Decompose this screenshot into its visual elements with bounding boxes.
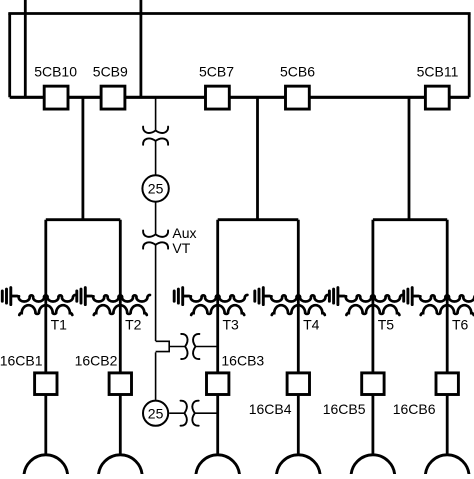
- wire: tie bar T1-T2: [46, 218, 121, 221]
- svg-text:16CB5: 16CB5: [323, 401, 366, 417]
- svg-text:16CB2: 16CB2: [75, 352, 118, 368]
- wire: T2 column upper: [119, 220, 122, 373]
- svg-text:T1: T1: [51, 316, 68, 332]
- svg-text:25: 25: [148, 405, 164, 421]
- wire: bus drop to T5/T6 tie bar: [408, 97, 411, 219]
- circuit breaker 5CB10: [44, 86, 68, 109]
- svg-text:T5: T5: [378, 316, 395, 332]
- circuit breaker 16CB5: [362, 373, 384, 395]
- circuit breaker 5CB7: [206, 86, 230, 109]
- wire: sync transformer 2 to T3 feeder: [195, 412, 218, 414]
- svg-text:5CB6: 5CB6: [280, 64, 315, 80]
- motor M5: [351, 455, 395, 479]
- wire: Aux VT down to tap jog: [155, 245, 157, 342]
- Aux VT transformer: [143, 231, 168, 249]
- wire: T5 column lower: [371, 395, 374, 455]
- node: offset tap jog on aux line: [156, 341, 170, 351]
- svg-text:16CB3: 16CB3: [221, 352, 264, 368]
- relay 25 (synchro-check) lower: [143, 401, 168, 426]
- wire: aux column from bus to VT: [155, 97, 157, 131]
- svg-text:25: 25: [148, 181, 164, 197]
- wire: T3 column lower: [216, 395, 219, 455]
- wire: top bypass line: [8, 12, 470, 15]
- wire: main bus: [10, 96, 470, 99]
- circuit breaker 16CB3: [207, 373, 229, 395]
- svg-text:5CB9: 5CB9: [93, 64, 128, 80]
- circuit breaker 5CB9: [101, 86, 125, 109]
- svg-text:T4: T4: [303, 316, 320, 332]
- svg-text:VT: VT: [172, 240, 190, 256]
- transformer T6: [413, 295, 474, 315]
- wire: sync transformer 1 to T3 feeder: [195, 346, 218, 348]
- ground symbol at T1 primary: [2, 288, 19, 305]
- wire: bus drop to T1/T2 tie bar: [82, 97, 85, 219]
- circuit breaker 5CB11: [425, 86, 449, 109]
- wire: right riser of bypass loop: [468, 14, 471, 98]
- transformer T5: [339, 295, 403, 315]
- wire: bus drop to T3/T4 tie bar: [256, 97, 259, 219]
- sync-check transformer 1: [181, 334, 199, 359]
- svg-text:5CB7: 5CB7: [199, 64, 234, 80]
- wire: T3 column upper: [216, 220, 219, 373]
- sync-check transformer 2: [181, 401, 199, 426]
- transformer T4: [265, 295, 329, 315]
- svg-text:T3: T3: [223, 316, 240, 332]
- wire: T1 column lower: [44, 395, 47, 455]
- svg-text:Aux: Aux: [172, 225, 196, 241]
- wire: T2 column lower: [119, 395, 122, 455]
- svg-text:5CB10: 5CB10: [34, 64, 77, 80]
- motor M3: [196, 455, 240, 479]
- circuit breaker 16CB1: [35, 373, 57, 395]
- wire: T4 column lower: [297, 395, 300, 455]
- wire: T1 column upper: [44, 220, 47, 373]
- ground symbol at T2 primary: [77, 288, 94, 305]
- svg-text:T6: T6: [452, 316, 469, 332]
- motor M2: [98, 455, 142, 479]
- wire: tie bar T3-T4: [218, 218, 299, 221]
- relay 25 (synchro-check) upper: [142, 175, 168, 201]
- wire: jog to sync transformer 1: [169, 346, 185, 348]
- circuit breaker 16CB4: [287, 373, 309, 395]
- circuit breaker 5CB6: [286, 86, 310, 109]
- transformer T3: [184, 295, 248, 315]
- ground symbol at T6 primary: [404, 288, 421, 305]
- circuit breaker 16CB2: [109, 373, 131, 395]
- transformer T2: [87, 295, 151, 315]
- ground symbol at T5 primary: [329, 288, 346, 305]
- voltage transformer VT (bus PT): [143, 127, 168, 145]
- ground symbol at T4 primary: [255, 288, 272, 305]
- motor M1: [24, 455, 68, 479]
- wire: tie bar T5-T6: [373, 218, 447, 221]
- wire: incoming feeder 1: [24, 0, 27, 97]
- wire: T6 column upper: [446, 220, 449, 373]
- transformer T1: [12, 295, 76, 315]
- svg-text:16CB6: 16CB6: [393, 401, 436, 417]
- wire: T5 column upper: [371, 220, 374, 373]
- wire: left riser of bypass loop: [8, 14, 11, 98]
- motor M4: [276, 455, 320, 479]
- wire: jog down to relay 25 lower: [155, 352, 157, 400]
- ground symbol at T3 primary: [174, 288, 191, 305]
- motor M6: [425, 455, 469, 479]
- wire: VT to relay 25: [155, 141, 157, 175]
- wire: T4 column upper: [297, 220, 300, 373]
- wire: relay 25 to sync transformer 2: [169, 412, 185, 414]
- svg-text:5CB11: 5CB11: [417, 64, 459, 80]
- wire: incoming feeder 2: [139, 0, 142, 97]
- circuit breaker 16CB6: [436, 373, 458, 395]
- wire: relay 25 to Aux VT: [155, 202, 157, 235]
- svg-text:16CB4: 16CB4: [249, 401, 292, 417]
- svg-text:16CB1: 16CB1: [0, 352, 43, 368]
- svg-text:T2: T2: [125, 316, 142, 332]
- wire: T6 column lower: [446, 395, 449, 455]
